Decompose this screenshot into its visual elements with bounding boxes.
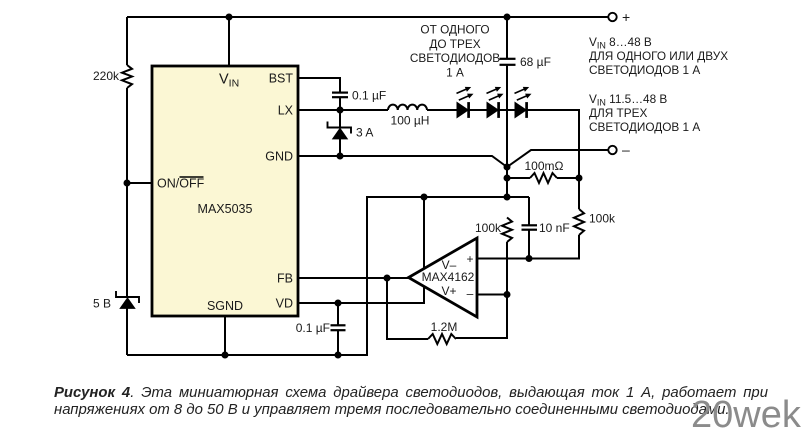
svg-text:68 µF: 68 µF bbox=[520, 55, 551, 69]
svg-text:0.1 µF: 0.1 µF bbox=[352, 89, 386, 103]
svg-text:ДЛЯ ТРЕХ: ДЛЯ ТРЕХ bbox=[589, 106, 647, 120]
svg-text:SGND: SGND bbox=[207, 299, 243, 313]
wire: V- supply drop to op-amp bbox=[423, 197, 425, 268]
resistor 100k (right, sense filter) bbox=[578, 178, 580, 209]
junction: 0.1uF on SGND rail bbox=[335, 352, 342, 359]
svg-text:СВЕТОДИОДОВ 1 А: СВЕТОДИОДОВ 1 А bbox=[589, 63, 700, 77]
resistor 1.2M bbox=[428, 334, 456, 344]
wire: inverting input to 1.2M/100k node bbox=[477, 242, 507, 338]
svg-text:V+: V+ bbox=[441, 284, 456, 298]
resistor 100k (left, ground to inverting input) bbox=[502, 218, 512, 243]
zener (catch) diode 3A at LX bbox=[339, 110, 341, 156]
svg-text:СВЕТОДИОДОВ 1 А: СВЕТОДИОДОВ 1 А bbox=[589, 120, 700, 134]
svg-text:ОТ ОДНОГО: ОТ ОДНОГО bbox=[420, 23, 489, 37]
junction: ground net at y197 bbox=[504, 194, 511, 201]
svg-text:0.1 µF: 0.1 µF bbox=[296, 321, 330, 335]
wire: FB node down to 1.2M bbox=[387, 278, 428, 339]
junction: 100mOhm left node bbox=[504, 175, 511, 182]
wire: bottom SGND rail bbox=[127, 197, 529, 355]
svg-text:VD: VD bbox=[276, 297, 293, 311]
svg-text:LX: LX bbox=[278, 104, 294, 118]
wire: LX pin to inductor bbox=[298, 109, 388, 111]
svg-text:220k: 220k bbox=[93, 69, 120, 83]
svg-text:VIN 8…48 В: VIN 8…48 В bbox=[589, 35, 652, 50]
wire: VD pin run and V+ supply bbox=[298, 287, 424, 303]
svg-text:FB: FB bbox=[277, 272, 293, 286]
svg-text:ON/OFF: ON/OFF bbox=[157, 177, 205, 191]
svg-text:VIN 11.5…48 В: VIN 11.5…48 В bbox=[589, 92, 667, 107]
svg-text:MAX4162: MAX4162 bbox=[422, 270, 475, 284]
terminal: - output bbox=[608, 146, 616, 154]
svg-text:BST: BST bbox=[269, 72, 294, 86]
svg-text:1.2M: 1.2M bbox=[431, 320, 458, 334]
wire: ON/OFF pin stub bbox=[127, 182, 152, 184]
junction: FB / 1.2M node bbox=[384, 275, 391, 282]
svg-text:100 µH: 100 µH bbox=[391, 114, 430, 128]
junction: VIN node on top rail bbox=[226, 14, 233, 21]
zener diode 5V (left branch) bbox=[116, 291, 139, 303]
junction: ON/OFF node bbox=[124, 180, 131, 187]
junction: SGND on bottom rail bbox=[222, 352, 229, 359]
capacitor 68uF bbox=[500, 58, 516, 60]
resistor 100mOhm (sense) bbox=[507, 177, 579, 179]
wire: top +VIN rail bbox=[127, 16, 608, 18]
note: LED count annotation (top) bbox=[410, 23, 500, 80]
junction: VD / 0.1uF node bbox=[335, 300, 342, 307]
inductor 100uH bbox=[388, 105, 427, 110]
resistor 220k bbox=[122, 65, 132, 88]
wire: minus terminal run bbox=[507, 150, 608, 167]
caption line 2 bbox=[54, 402, 730, 418]
svg-text:3 A: 3 A bbox=[356, 126, 373, 140]
svg-text:5 В: 5 В bbox=[93, 297, 111, 311]
svg-text:–: – bbox=[467, 287, 474, 301]
wire: bootstrap cap to LX node bbox=[339, 98, 341, 110]
LED D2 bbox=[487, 87, 504, 118]
wire: BST pin to bootstrap cap bbox=[298, 78, 340, 92]
svg-text:MAX5035: MAX5035 bbox=[198, 202, 253, 216]
svg-text:ДО ТРЕХ: ДО ТРЕХ bbox=[429, 37, 480, 51]
note: VIN range for 3 LEDs bbox=[589, 92, 700, 134]
svg-text:–: – bbox=[622, 142, 630, 158]
svg-text:100k: 100k bbox=[475, 221, 502, 235]
junction: 100mOhm right / LED cathode node bbox=[576, 175, 583, 182]
svg-text:СВЕТОДИОДОВ: СВЕТОДИОДОВ bbox=[410, 51, 500, 65]
svg-text:10 nF: 10 nF bbox=[539, 221, 570, 235]
wire: GND pin run bbox=[298, 156, 507, 167]
junction: inverting input node bbox=[504, 291, 511, 298]
terminal: + output bbox=[608, 13, 616, 21]
svg-text:100k: 100k bbox=[589, 212, 616, 226]
wire: SGND pin drop bbox=[224, 316, 226, 355]
junction: GND / minus-terminal node bbox=[504, 164, 511, 171]
note: VIN range for 1-2 LEDs bbox=[589, 35, 728, 77]
junction: V- supply tap node bbox=[421, 194, 428, 201]
capacitor 0.1uF (bootstrap) bbox=[332, 91, 348, 93]
svg-text:+: + bbox=[466, 252, 473, 266]
junction: noninverting input node bbox=[526, 255, 533, 262]
wire: inductor to LED string and off to right column bbox=[427, 110, 579, 178]
svg-text:1 А: 1 А bbox=[446, 65, 464, 79]
svg-text:+: + bbox=[622, 9, 630, 25]
LED D3 bbox=[515, 87, 532, 118]
svg-text:ДЛЯ ОДНОГО ИЛИ ДВУХ: ДЛЯ ОДНОГО ИЛИ ДВУХ bbox=[589, 49, 728, 63]
capacitor 0.1uF (VD bypass) bbox=[337, 303, 339, 355]
LED D1 bbox=[457, 87, 474, 118]
wire: FB pin to op-amp output bbox=[298, 277, 409, 279]
wire: left branch vertical (220k / ON-OFF / 5V zener) bbox=[126, 17, 128, 355]
junction: LX / catch-diode node bbox=[337, 107, 344, 114]
wire: VIN pin drop from rail to IC bbox=[228, 17, 230, 66]
svg-text:100mΩ: 100mΩ bbox=[525, 159, 564, 173]
junction: diode anode on GND wire bbox=[337, 153, 344, 160]
op-amp U2 MAX4162 (points left) bbox=[409, 238, 478, 317]
caption line 1 bbox=[54, 385, 768, 401]
IC U1 MAX5035 body bbox=[152, 66, 298, 316]
svg-text:GND: GND bbox=[265, 150, 293, 164]
capacitor 10nF column bbox=[528, 197, 530, 259]
watermark 20wek bbox=[691, 394, 801, 437]
wire: main input-cap / ground column bbox=[506, 17, 508, 197]
junction: top of 68uF column bbox=[504, 14, 511, 21]
